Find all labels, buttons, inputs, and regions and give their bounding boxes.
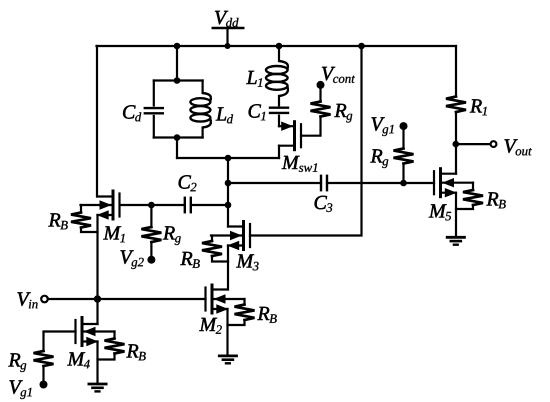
terminal Vin open circle xyxy=(41,296,48,303)
capacitor C1 xyxy=(270,106,288,108)
label Rg (M4) xyxy=(8,353,20,366)
wire R1 to M5 drain xyxy=(455,112,457,174)
resistor Rg (Vg2) xyxy=(141,227,161,242)
transistor Msw1 xyxy=(293,122,296,150)
wire Vin node to M4 drain xyxy=(96,299,98,324)
tank top rail wire xyxy=(154,79,203,81)
label Cd xyxy=(123,105,135,118)
wire bias to Rg (Vg2) xyxy=(150,205,152,227)
node dot tank bottom xyxy=(174,134,181,141)
node dot tank top xyxy=(174,77,181,84)
wire tank bottom down xyxy=(176,138,178,159)
junction dot Vout xyxy=(453,141,460,148)
inductor Ld xyxy=(202,81,204,94)
capacitor C3 xyxy=(320,176,322,190)
label Vg2 xyxy=(121,250,134,263)
wire Vg1 to Rg xyxy=(402,126,404,148)
wire Rg to Vg1 (left) xyxy=(42,366,44,385)
label M4 xyxy=(67,352,85,365)
resistor RB (M4) xyxy=(113,332,115,339)
Vdd stub wire xyxy=(226,28,228,46)
top Vdd rail wire xyxy=(97,45,457,47)
terminal dot Vg1 (left) xyxy=(40,381,48,389)
wire Msw1 gate to Rg xyxy=(301,117,321,136)
label Ld xyxy=(216,107,226,120)
wire C3 to M5 gate xyxy=(327,182,434,184)
wire left column (rail to M1 drain) xyxy=(96,46,98,197)
label Vcont xyxy=(322,67,335,80)
resistor Rg (Vg1 right) xyxy=(394,149,414,164)
power supply Vdd bar xyxy=(213,27,244,29)
label Vg1 (right) xyxy=(372,117,385,130)
resistor Rg (M4) xyxy=(34,351,54,366)
terminal dot Vg1 (right) xyxy=(400,122,408,130)
ground (M2) xyxy=(219,354,236,357)
label C1 xyxy=(249,104,261,117)
label RB (M2) xyxy=(257,307,269,320)
resistor RB (M3) xyxy=(211,236,213,242)
label M2 xyxy=(199,318,217,331)
wire M1 gate to C2 xyxy=(120,204,185,206)
label M3 xyxy=(236,254,254,267)
terminal dot Vg2 xyxy=(147,256,155,264)
wire C2 to center node xyxy=(191,204,228,206)
resistor RB (M5) xyxy=(472,183,474,190)
wire rail to L1 xyxy=(278,46,280,61)
wire M3 source to M2 drain xyxy=(227,246,229,290)
terminal Vout open circle xyxy=(491,141,497,147)
wire Vcont to Rg xyxy=(319,85,321,102)
wire Cd top lead xyxy=(153,81,155,106)
label Rg (Vcont) xyxy=(334,104,346,117)
wire Cd bottom lead xyxy=(153,116,155,138)
transistor M1 xyxy=(112,191,115,219)
label RB (M3) xyxy=(180,252,192,265)
label RB (M1) xyxy=(48,213,60,226)
label Vin xyxy=(18,292,31,305)
junction dot rail-M3 gate line xyxy=(358,43,365,50)
wire L1 to C1 xyxy=(278,96,280,105)
tank bottom rail wire xyxy=(154,136,203,138)
wire node to C3 xyxy=(228,182,321,184)
wire C1 to Msw1 drain xyxy=(278,116,280,127)
junction dot rail-L1 xyxy=(276,43,283,50)
wire Msw1 source down xyxy=(278,146,280,158)
wire rail to R1 xyxy=(455,46,457,97)
label M5 xyxy=(429,204,447,217)
capacitor C2 xyxy=(184,198,186,212)
label Rg (right) xyxy=(370,149,382,162)
resistor RB (M2) xyxy=(243,299,245,305)
ground (M5) xyxy=(447,236,464,239)
wire center column node xyxy=(227,158,229,227)
label Msw1 xyxy=(282,156,300,169)
label M1 xyxy=(103,226,121,239)
wire M3 gate line to Vdd rail xyxy=(250,46,362,236)
junction dot C2 line xyxy=(225,202,232,209)
resistor R1 xyxy=(446,97,466,113)
wire M4 source to ground xyxy=(96,342,98,385)
junction dot Vin node xyxy=(94,295,101,302)
junction dot C3 line xyxy=(225,180,232,187)
wire Rg to Vg2 xyxy=(150,242,152,260)
label Rg (Vg2) xyxy=(163,226,175,239)
label C2 xyxy=(179,175,191,188)
wire Rg to C3 line xyxy=(402,164,404,184)
transistor M4 xyxy=(81,318,84,346)
junction dot Rg-Vg1 bottom xyxy=(400,180,407,187)
transistor M2 xyxy=(211,285,214,313)
label Vdd xyxy=(215,11,228,24)
label C3 xyxy=(315,196,327,209)
label L1 xyxy=(246,71,256,84)
terminal dot Vcont xyxy=(317,81,325,89)
transistor M5 xyxy=(439,169,442,197)
label R1 xyxy=(470,99,482,112)
inductor L1 xyxy=(266,66,288,74)
resistor RB (M1) xyxy=(80,205,82,213)
label RB (M4) xyxy=(126,344,138,357)
wire M5 source to ground xyxy=(455,193,457,238)
wire M2 source to ground xyxy=(226,309,228,356)
junction dot node y158 xyxy=(225,155,232,162)
wire Vin line xyxy=(48,298,206,300)
wire tank-bottom to Msw1 source xyxy=(177,157,279,159)
wire rail to tank top xyxy=(176,46,178,81)
junction dot rail-tank xyxy=(174,43,181,50)
junction dot M1 gate bias xyxy=(148,202,155,209)
ground (M4) xyxy=(89,383,106,386)
label Vout xyxy=(505,139,518,152)
wire M4 gate to Rg xyxy=(44,332,76,352)
transistor M3 xyxy=(242,222,245,250)
junction dot rail-Vdd stub xyxy=(225,43,231,49)
resistor Rg (Vcont) xyxy=(311,102,331,117)
capacitor Cd xyxy=(145,107,163,109)
wire M1 source down to Vin node xyxy=(96,215,98,299)
label RB (M5) xyxy=(486,192,498,205)
label Vg1 (left) xyxy=(10,380,23,393)
wire Vout xyxy=(456,143,491,145)
